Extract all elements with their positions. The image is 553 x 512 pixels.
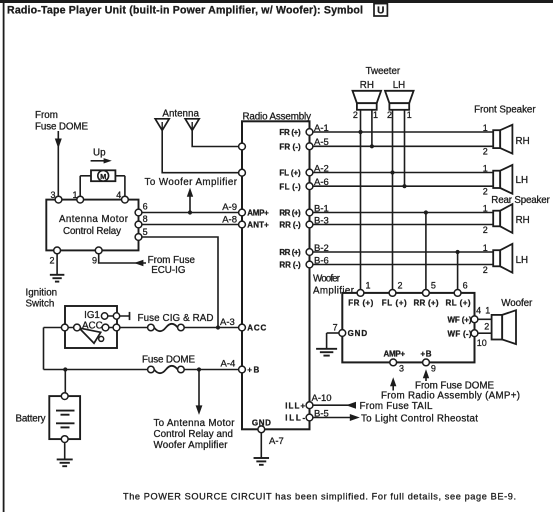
svg-text:A-2: A-2 [314, 163, 329, 174]
svg-text:2: 2 [49, 256, 54, 266]
svg-text:9: 9 [431, 364, 436, 374]
svg-text:8: 8 [143, 214, 148, 224]
svg-text:GND: GND [252, 419, 271, 428]
svg-text:A-9: A-9 [222, 202, 237, 213]
svg-text:7: 7 [333, 323, 338, 333]
svg-text:WF (-): WF (-) [448, 329, 472, 338]
svg-text:4: 4 [476, 306, 481, 316]
svg-text:LH: LH [516, 175, 529, 186]
svg-text:RR (+): RR (+) [279, 209, 301, 218]
svg-text:A-1: A-1 [314, 123, 329, 134]
svg-text:2: 2 [353, 110, 358, 120]
svg-text:RR (-): RR (-) [279, 261, 301, 270]
svg-text:To Antenna Motor: To Antenna Motor [154, 418, 236, 429]
svg-text:FR (+): FR (+) [279, 128, 301, 137]
svg-text:Control Relay: Control Relay [63, 226, 121, 237]
svg-text:2: 2 [483, 225, 488, 235]
svg-text:ACC: ACC [247, 324, 266, 333]
svg-text:AMP+: AMP+ [247, 208, 269, 217]
svg-text:LH: LH [393, 80, 406, 91]
svg-text:A-6: A-6 [314, 177, 329, 188]
svg-text:FL (+): FL (+) [382, 299, 407, 308]
svg-text:RR (+): RR (+) [414, 299, 439, 308]
svg-text:M: M [100, 172, 106, 181]
svg-text:Ignition: Ignition [26, 288, 58, 299]
svg-text:2: 2 [484, 321, 489, 331]
svg-text:GND: GND [348, 329, 368, 338]
svg-text:1: 1 [407, 110, 412, 120]
svg-text:FR (+): FR (+) [348, 299, 373, 308]
svg-text:Amplifier: Amplifier [313, 286, 355, 297]
svg-text:3: 3 [50, 190, 55, 200]
svg-text:Fuse DOME: Fuse DOME [142, 355, 195, 366]
svg-text:Up: Up [93, 148, 106, 159]
svg-text:A-4: A-4 [221, 358, 236, 369]
svg-text:2: 2 [398, 281, 403, 291]
svg-text:A-7: A-7 [269, 436, 284, 447]
svg-text:Control Relay and: Control Relay and [154, 429, 234, 440]
svg-text:1: 1 [485, 306, 490, 316]
svg-text:2: 2 [483, 187, 488, 197]
svg-text:Radio-Tape Player Unit (built-: Radio-Tape Player Unit (built-in Power A… [7, 5, 363, 17]
svg-text:1: 1 [72, 190, 77, 200]
svg-text:RH: RH [516, 136, 530, 147]
svg-text:RL (+): RL (+) [446, 299, 471, 308]
svg-text:RH: RH [516, 215, 530, 226]
svg-text:WF (+): WF (+) [448, 315, 472, 324]
svg-text:6: 6 [143, 202, 148, 212]
svg-text:2: 2 [483, 147, 488, 157]
svg-text:LH: LH [516, 255, 529, 266]
svg-text:ECU-IG: ECU-IG [151, 265, 185, 276]
svg-text:1: 1 [483, 243, 488, 253]
svg-text:FL (-): FL (-) [279, 182, 301, 191]
svg-text:ILL-: ILL- [285, 414, 305, 423]
svg-text:6: 6 [463, 281, 468, 291]
svg-text:B-2: B-2 [314, 243, 329, 254]
svg-text:FR (-): FR (-) [279, 143, 301, 152]
svg-text:3: 3 [399, 363, 404, 373]
svg-text:The POWER SOURCE CIRCUIT has b: The POWER SOURCE CIRCUIT has been simpli… [123, 492, 516, 502]
svg-text:2: 2 [387, 110, 392, 120]
svg-text:2: 2 [483, 265, 488, 275]
svg-text:From: From [35, 110, 58, 121]
svg-text:To Woofer Amplifier: To Woofer Amplifier [145, 177, 238, 188]
svg-text:1: 1 [373, 110, 378, 120]
svg-text:1: 1 [483, 203, 488, 213]
svg-text:+B: +B [247, 366, 259, 375]
svg-text:RR (-): RR (-) [279, 221, 301, 230]
svg-text:ANT+: ANT+ [247, 220, 269, 229]
svg-text:Tweeter: Tweeter [366, 66, 401, 77]
svg-text:From Fuse TAIL: From Fuse TAIL [360, 401, 434, 412]
svg-text:Fuse CIG & RAD: Fuse CIG & RAD [138, 313, 214, 324]
svg-text:Front Speaker: Front Speaker [474, 105, 536, 116]
svg-text:Woofer: Woofer [313, 274, 341, 285]
svg-text:ILL+: ILL+ [285, 401, 305, 410]
svg-text:FL (+): FL (+) [279, 169, 301, 178]
svg-text:RH: RH [360, 80, 374, 91]
svg-text:From Radio Assembly (AMP+): From Radio Assembly (AMP+) [381, 391, 520, 402]
svg-text:+B: +B [421, 350, 432, 359]
svg-text:9: 9 [92, 256, 97, 266]
svg-text:A-3: A-3 [220, 317, 235, 328]
svg-text:A-5: A-5 [314, 137, 329, 148]
svg-text:Woofer: Woofer [501, 298, 533, 309]
svg-text:U: U [377, 6, 384, 17]
svg-text:Antenna Motor: Antenna Motor [59, 214, 129, 225]
svg-text:B-3: B-3 [314, 215, 329, 226]
svg-text:10: 10 [477, 338, 487, 348]
svg-text:To Light Control Rheostat: To Light Control Rheostat [361, 414, 478, 425]
svg-text:IG1: IG1 [84, 310, 100, 321]
svg-text:Radio Assembly: Radio Assembly [243, 112, 312, 123]
svg-text:A-10: A-10 [312, 393, 332, 404]
svg-text:Rear Speaker: Rear Speaker [491, 195, 550, 206]
svg-text:4: 4 [116, 190, 121, 200]
svg-text:Antenna: Antenna [162, 108, 199, 119]
svg-text:Fuse DOME: Fuse DOME [35, 122, 88, 133]
svg-text:5: 5 [431, 281, 436, 291]
svg-text:Switch: Switch [26, 299, 55, 310]
svg-text:A-8: A-8 [222, 214, 237, 225]
svg-text:RR (+): RR (+) [279, 248, 301, 257]
svg-text:5: 5 [143, 227, 148, 237]
svg-text:1: 1 [483, 163, 488, 173]
svg-text:B-1: B-1 [314, 203, 329, 214]
svg-text:Battery: Battery [16, 413, 46, 424]
svg-text:1: 1 [483, 123, 488, 133]
svg-text:B-6: B-6 [314, 255, 329, 266]
svg-text:AMP+: AMP+ [384, 350, 406, 359]
svg-text:Woofer Amplifier: Woofer Amplifier [154, 440, 229, 451]
svg-text:1: 1 [366, 281, 371, 291]
